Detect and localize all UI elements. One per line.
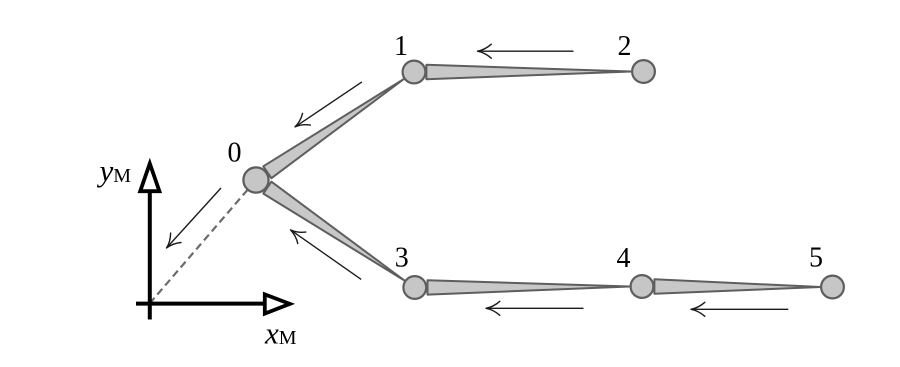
svg-text:1: 1 bbox=[394, 31, 408, 62]
link L3 (node 0 to node 3) bbox=[263, 182, 405, 281]
svg-text:xM: xM bbox=[264, 316, 297, 351]
arrow link1 direction (1 to 0) bbox=[291, 82, 362, 133]
arrow link4 direction (4 to 3) bbox=[486, 301, 584, 315]
dashed base line (origin to node 0) bbox=[150, 180, 256, 304]
joint node 5 bbox=[821, 276, 844, 299]
svg-text:yM: yM bbox=[97, 153, 132, 188]
arrow link2 direction (2 to 1) bbox=[478, 44, 574, 58]
arrow link3 direction (3 to 0) bbox=[286, 224, 361, 279]
link L1 (node 0 to node 1) bbox=[263, 79, 404, 178]
link L5 (node 4 to node 5) bbox=[654, 279, 820, 293]
svg-text:5: 5 bbox=[809, 243, 823, 274]
joint node 2 bbox=[632, 60, 655, 83]
svg-text:3: 3 bbox=[395, 243, 409, 274]
joint node 0 bbox=[243, 167, 268, 192]
svg-text:4: 4 bbox=[617, 243, 631, 274]
y axis arrowhead bbox=[140, 164, 159, 192]
joint node 4 bbox=[631, 275, 654, 298]
y axis line bbox=[148, 191, 152, 320]
x axis arrowhead bbox=[265, 294, 290, 313]
arrow link5 direction (5 to 4) bbox=[691, 302, 788, 316]
joint node 1 bbox=[403, 61, 426, 84]
svg-text:2: 2 bbox=[618, 31, 632, 62]
svg-text:0: 0 bbox=[228, 138, 242, 169]
x axis line bbox=[136, 302, 265, 306]
link L4 (node 3 to node 4) bbox=[428, 280, 631, 294]
link L2 (node 1 to node 2) bbox=[426, 65, 631, 79]
joint node 3 bbox=[403, 276, 426, 299]
arrow base direction (0 to origin) bbox=[161, 188, 221, 253]
